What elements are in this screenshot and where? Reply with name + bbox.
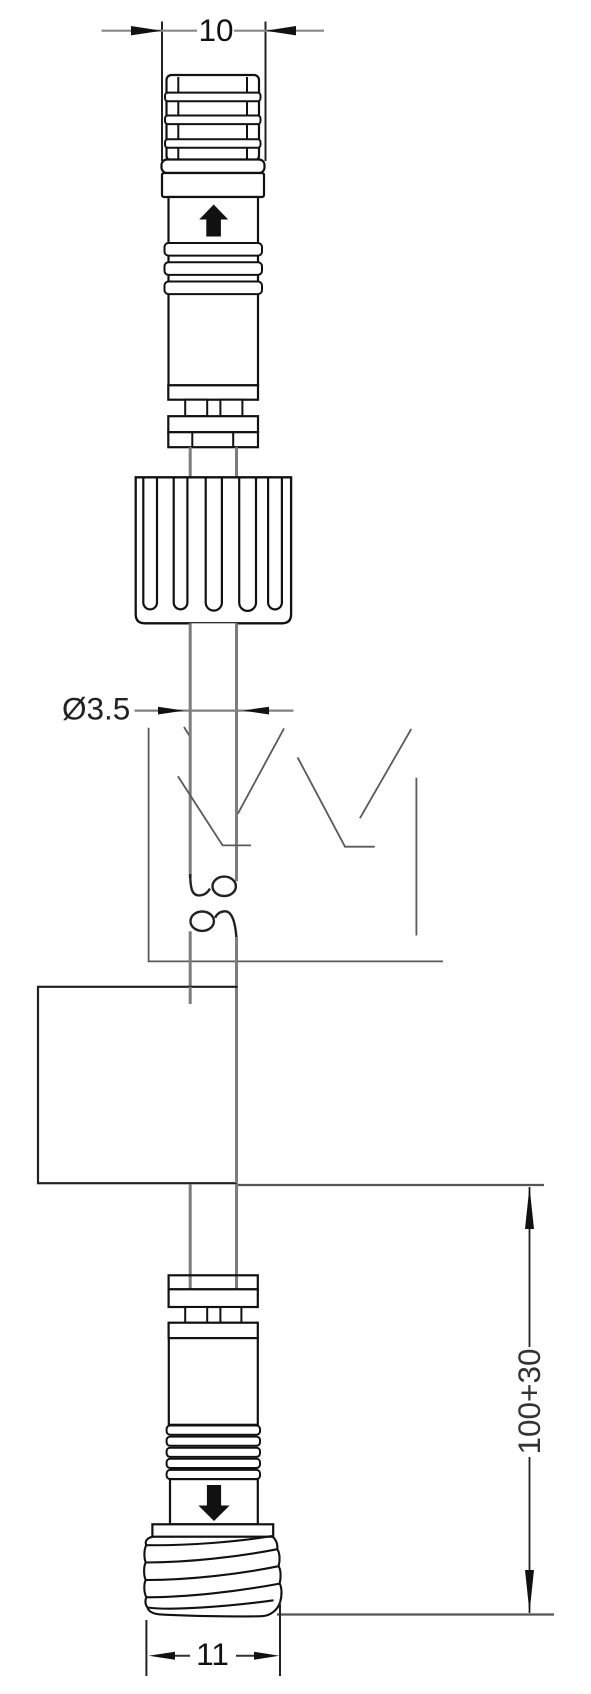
connector B body xyxy=(169,1338,258,1425)
dimension 10: dimension line left part xyxy=(102,30,198,32)
connector A lamella bar 2 xyxy=(165,116,261,125)
connector B bayonet tab right xyxy=(220,1307,241,1323)
connector A head outer shell xyxy=(167,75,260,161)
connector B thread crest 3 xyxy=(146,1566,279,1580)
connector A lamella bar 1 xyxy=(165,93,261,102)
dimension 11 right extension line xyxy=(279,1604,281,1676)
extension line from thread bottom to dimension 100+30 xyxy=(277,1613,554,1615)
connector B grip rib band 4 xyxy=(167,1459,260,1468)
dimension 11 left arrowhead xyxy=(149,1652,175,1660)
connector A collar ring xyxy=(162,160,265,174)
watermark M diagonal up stroke xyxy=(238,728,284,813)
connector A collar block xyxy=(162,173,264,197)
cable segment from box to connector B xyxy=(189,1184,192,1289)
dimension 11 line left xyxy=(172,1655,190,1657)
svg-text:10: 10 xyxy=(198,12,233,48)
dimension 100+30 top arrowhead xyxy=(525,1187,534,1230)
svg-text:100+30: 100+30 xyxy=(511,1349,547,1455)
connector A bayonet tab right xyxy=(220,400,242,417)
cable right line through box (box right edge) xyxy=(235,988,238,1183)
dimension 100+30 bottom arrowhead xyxy=(525,1570,534,1613)
gland nut knurl groove 5 xyxy=(268,478,282,609)
connector A cable entry lines xyxy=(191,432,193,447)
dimension Ø3.5 left arrowhead xyxy=(158,707,184,715)
connector A bayonet tab left xyxy=(185,400,207,417)
dimension Ø3.5 right arrowhead xyxy=(243,707,269,715)
cable long segment left line xyxy=(189,623,192,878)
connector B grip rib band 2 xyxy=(167,1437,260,1446)
connector A lock ring band xyxy=(168,385,258,399)
dimension 11 left extension line xyxy=(145,1620,147,1676)
dimension 100+30 vertical line upper part xyxy=(529,1187,531,1347)
svg-text:Ø3.5: Ø3.5 xyxy=(62,691,130,727)
cable left line stub inside box xyxy=(189,987,192,1004)
connector A head inner right edge xyxy=(246,77,248,160)
connector A grip rib band 3 xyxy=(165,282,263,295)
connector B grip rib band 5 xyxy=(167,1470,260,1479)
watermark M right diagonal xyxy=(360,729,411,818)
in-line component box xyxy=(38,987,236,1183)
connector A body xyxy=(169,197,259,385)
dimension 11 right arrowhead xyxy=(254,1652,279,1660)
cable break lower hook xyxy=(215,911,237,943)
connector A mating direction arrow (up) xyxy=(199,205,228,237)
connector A rear ring 1 xyxy=(168,416,258,432)
gland nut knurl groove 1 xyxy=(143,478,157,609)
dimension 10: dimension line right part xyxy=(234,30,324,32)
cable break lower loop xyxy=(191,912,214,931)
cable segment between connector A and gland nut xyxy=(189,447,192,477)
connector B flange xyxy=(152,1524,273,1536)
watermark M stroke hidden behind cable xyxy=(184,727,238,814)
dimension 10: right arrowhead xyxy=(266,26,297,35)
cable long segment right line xyxy=(235,623,238,881)
cable break upper loop xyxy=(213,877,236,896)
connector B thread crest 2 xyxy=(146,1549,278,1562)
cable resume right line below break xyxy=(235,937,238,988)
dimension Ø3.5 dimension line xyxy=(135,709,294,711)
connector A lamella bar 3 xyxy=(165,139,261,148)
connector B rear ring 1 xyxy=(169,1275,258,1289)
cable resume left line below break xyxy=(189,931,192,1004)
connector B lock ring band xyxy=(169,1323,258,1338)
watermark M right inner vertical xyxy=(415,778,417,936)
extension line from box bottom to dimension 100+30 xyxy=(237,1184,545,1186)
connector A rear ring 2 xyxy=(168,432,258,447)
gland nut knurl groove 4 xyxy=(239,478,256,611)
connector B thread crest 4 xyxy=(146,1584,279,1598)
connector B thread outline left edge xyxy=(144,1537,153,1608)
connector B mating direction arrow (down) xyxy=(198,1485,229,1521)
connector A grip rib band 2 xyxy=(165,262,263,275)
connector B thread right edge xyxy=(272,1536,281,1602)
connector B grip rib band 1 xyxy=(167,1426,260,1435)
dimension 11 line right xyxy=(236,1655,258,1657)
connector B rear ring 2 xyxy=(169,1289,258,1307)
gland nut knurl groove 3 xyxy=(206,478,222,610)
connector B bayonet tab left xyxy=(185,1307,207,1323)
watermark M left checkmark xyxy=(178,776,251,845)
connector B thread bottom edge xyxy=(148,1602,281,1617)
dimension 10: right extension line xyxy=(265,22,267,162)
cable white fill below nut xyxy=(191,623,235,960)
svg-text:11: 11 xyxy=(196,1636,229,1672)
dimension 10: left extension line xyxy=(161,22,163,162)
connector A head inner left edge xyxy=(177,77,179,160)
connector B lower body xyxy=(170,1479,258,1524)
dimension 10: left arrowhead xyxy=(131,26,162,35)
cable break upper hook xyxy=(190,874,210,895)
connector B thread crest 1 xyxy=(146,1536,272,1545)
dimension 100+30 vertical line lower part xyxy=(529,1457,531,1613)
connector B grip rib band 3 xyxy=(167,1448,260,1457)
connector A grip rib band 1 xyxy=(165,243,263,256)
knurled gland nut body xyxy=(136,477,291,623)
watermark M middle checkmark xyxy=(298,757,375,846)
watermark box left edge xyxy=(149,728,443,962)
connector B thread crest 5 xyxy=(148,1600,274,1608)
gland nut knurl groove 2 xyxy=(174,478,188,609)
